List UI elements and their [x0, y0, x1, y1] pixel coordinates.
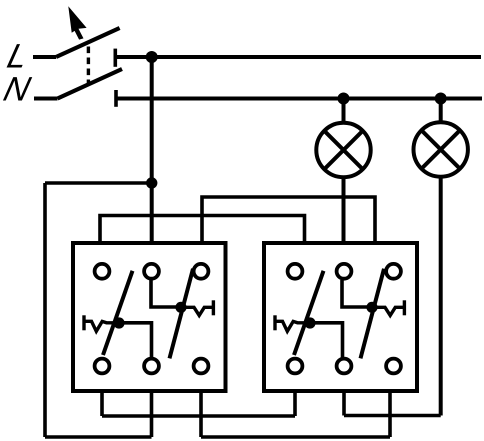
label N (neutral conductor): [0, 71, 34, 108]
wire: lamp E1 to box2 terminal 2: [342, 177, 346, 244]
wire: box2 terminal 5 drop: [342, 391, 346, 416]
box1 rocker 1: pivot dot: [113, 317, 124, 328]
box1 rocker 2: wire terminal 2 to pivot: [151, 280, 181, 307]
wire: box2 terminal 4 drop: [293, 391, 297, 416]
svg-text:N: N: [0, 71, 34, 108]
box2 terminal 1: [288, 264, 303, 279]
box2 rocker 1: spring zigzag: [275, 321, 310, 331]
wire: bottom run to box1 terminal 5: [45, 435, 152, 439]
box1 rocker 1: wire pivot to terminal 5: [119, 323, 152, 358]
wire: box2 terminal 6 drop: [388, 391, 392, 437]
box1 rocker 2: spring zigzag: [181, 307, 213, 315]
wire: box1 terminal 5 drop: [150, 391, 154, 437]
L bus wire: [115, 55, 481, 59]
svg-text:L: L: [4, 38, 32, 75]
switch S1a blade (L pole, open): [56, 28, 120, 57]
box2 terminal 2: [337, 264, 352, 279]
box2 terminal 6: [386, 359, 401, 374]
wire: crossover run B (box1 t1 to box2 top): [100, 216, 305, 244]
wire: run box1 t4 to box2 t4: [102, 414, 295, 418]
box2 rocker 1: wire pivot to terminal 5: [310, 323, 343, 358]
wire: from L-drop junction left: [45, 181, 152, 185]
box2 rocker 1: blade: [294, 271, 324, 355]
box2 rocker 2: wire terminal 2 to pivot: [342, 280, 372, 307]
box1 terminal 2: [144, 264, 159, 279]
switch S1a pole L: wire stub from L label: [33, 55, 56, 59]
switch S1b pole N: wire stub from N label: [34, 97, 58, 101]
node: junction dot lamp E1 on N bus: [338, 93, 350, 105]
lamp E2: [414, 122, 468, 176]
box1 rocker 1: spring zigzag: [84, 321, 119, 331]
box1 terminal 1: [95, 264, 110, 279]
box2 rocker 2: pivot dot: [366, 302, 377, 313]
node: junction dot on L drop: [146, 177, 157, 188]
label L (line conductor): [4, 38, 32, 75]
box1 terminal 4: [95, 359, 110, 374]
box1 rocker 1: end-stop tick: [82, 315, 85, 330]
box2 rocker 1: end-stop tick: [273, 315, 276, 330]
box1 rocker 2: pivot dot: [175, 302, 186, 313]
wire: lamp E2 feed from N bus: [439, 99, 443, 123]
node: junction dot lamp E2 on N bus: [435, 93, 447, 105]
terminal tick on N bus: [114, 90, 118, 107]
wire: left outer vertical run: [43, 183, 47, 437]
wire: box1 terminal 6 drop: [199, 391, 203, 437]
switch unit box 2: [264, 243, 417, 391]
wire: lamp E1 feed from N bus: [342, 99, 346, 124]
box2 rocker 1: pivot dot: [304, 317, 315, 328]
box1 rocker 2: end-stop tick: [212, 300, 215, 315]
box2 terminal 5: [337, 359, 352, 374]
N bus wire: [116, 97, 482, 101]
mechanical coupling (dashed) between poles: [87, 47, 90, 85]
wire: bottom run box1 t6 to box2 t6: [201, 435, 390, 439]
actuation arrow (cursor): [68, 6, 86, 39]
wire: crossover run A (box1 t3 to box2 top): [202, 197, 375, 243]
wire: box1 terminal 4 drop: [100, 391, 104, 416]
box2 rocker 2: blade: [361, 269, 385, 359]
node: junction dot on L bus: [146, 51, 158, 63]
wire: lamp E2 right outer vertical run: [439, 176, 443, 416]
switch S1b blade (N pole, open): [58, 69, 123, 99]
wire: main L drop to box 1 terminal 2: [150, 57, 154, 243]
box2 terminal 4: [288, 359, 303, 374]
box2 rocker 2: spring zigzag: [372, 307, 404, 315]
box1 terminal 5: [144, 359, 159, 374]
box1 terminal 6: [194, 359, 209, 374]
box1 rocker 1: blade: [103, 271, 133, 355]
box2 terminal 3: [386, 264, 401, 279]
box1 rocker 2: blade: [170, 269, 194, 359]
wire: run box2 t5 to lamp E2 return: [344, 414, 441, 418]
lamp E1: [316, 123, 370, 177]
box2 rocker 2: end-stop tick: [403, 300, 406, 315]
terminal tick on L bus: [114, 49, 118, 67]
box1 terminal 3: [194, 264, 209, 279]
switch unit box 1: [73, 243, 226, 391]
